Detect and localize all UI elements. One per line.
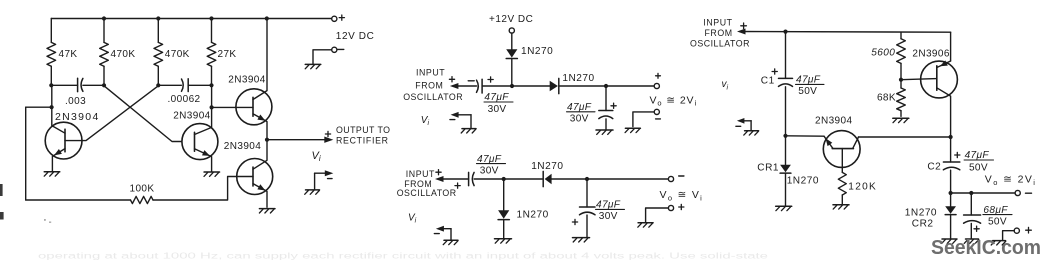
- svg-text:INPUT: INPUT: [703, 17, 732, 27]
- svg-text:68K: 68K: [877, 93, 896, 104]
- wire C3 to node (doubler A): [482, 85, 550, 87]
- label RECTIFIER: [336, 135, 389, 145]
- svg-text:47K: 47K: [59, 49, 78, 60]
- wire input (doubler B): [435, 176, 469, 182]
- node output bus / 68uF tap: [969, 191, 973, 195]
- label C2 50V: [969, 163, 988, 174]
- node output cap tap (doubler A): [604, 84, 608, 88]
- probe Vi A arrow right: [315, 170, 334, 189]
- label INPUT (doubler B): [406, 169, 435, 179]
- svg-text:470K: 470K: [165, 49, 190, 60]
- wire bottom rail right: [153, 177, 237, 201]
- terminal output plus (doubler A): [654, 83, 659, 88]
- label input plus lower (doubler B): [455, 183, 460, 188]
- ground C4 (doubler A): [596, 130, 613, 134]
- wire bottom rail left: [26, 199, 131, 201]
- wire D4 to output terminal (doubler B): [552, 178, 669, 180]
- svg-text:INPUT: INPUT: [406, 169, 435, 179]
- wire D1 to input node: [511, 59, 513, 86]
- label input plus (doubler A): [449, 77, 454, 82]
- capacitor C7 68uF (right): [964, 215, 981, 223]
- label C5 30V: [480, 165, 499, 176]
- svg-text:2N3904: 2N3904: [224, 141, 261, 152]
- wire C5 to diode D4 (doubler B): [474, 178, 543, 180]
- node R4/C2/Q2 collector: [209, 83, 213, 87]
- svg-text:2N3904: 2N3904: [55, 111, 100, 123]
- wire input top rail (right): [737, 29, 951, 35]
- transistor Q2 2N3904: [182, 85, 218, 171]
- label Vi probe D: [0, 0, 1, 1]
- resistor R7 5600: [897, 32, 906, 79]
- ground plus terminal (right): [991, 241, 1006, 245]
- label C2 plus: [955, 152, 960, 157]
- ground R6 120K: [833, 205, 849, 209]
- svg-text:Vo ≅ 2Vi: Vo ≅ 2Vi: [650, 94, 698, 107]
- label C1 50V: [798, 86, 817, 97]
- wire 68uF top lead: [970, 193, 972, 215]
- svg-text:operating at about 1000 Hz, ca: operating at about 1000 Hz, can supply e…: [38, 252, 769, 261]
- svg-text:INPUT: INPUT: [416, 68, 445, 78]
- label D3 1N270: [517, 210, 549, 221]
- label C7 50V: [988, 217, 1007, 228]
- ground Vi probe C: [443, 240, 458, 244]
- capacitor C1 .003: [78, 78, 83, 91]
- ground plus terminal (doubler B): [638, 223, 653, 227]
- watermark SeekIC.com: [931, 236, 1041, 259]
- probe Vi B arrow left: [450, 112, 471, 128]
- svg-text:5600: 5600: [871, 47, 895, 58]
- label 12V minus: [338, 48, 344, 50]
- label CR1: [757, 162, 779, 173]
- label C5 47uF: [477, 154, 506, 165]
- ground C7 68uF: [964, 239, 979, 243]
- label terminal plus (doubler A): [656, 73, 661, 78]
- svg-text:50V: 50V: [988, 217, 1007, 228]
- svg-text:2N3906: 2N3906: [912, 49, 949, 60]
- label C7 68uF: [983, 205, 1012, 216]
- resistor R5 100K: [131, 196, 154, 203]
- wire Q2 collector to Q3 base: [212, 106, 253, 108]
- svg-text:120K: 120K: [848, 181, 877, 192]
- diode D4 1N270 series: [543, 171, 551, 186]
- ground minus terminal (doubler A): [625, 128, 640, 132]
- wire R6 to ground: [841, 195, 843, 204]
- svg-text:1N270: 1N270: [517, 210, 549, 221]
- resistor R3 470K: [154, 19, 163, 86]
- label Vo=Vi (doubler B): [660, 189, 704, 202]
- wire D2 to output terminal (doubler A): [560, 85, 654, 87]
- node top rail / 27K R4: [209, 16, 213, 20]
- wire C6 to ground: [586, 215, 588, 237]
- resistor R6 120K: [838, 172, 846, 195]
- node diode junction (doubler B): [502, 177, 506, 181]
- wire Q1 collector node to C1: [51, 84, 77, 86]
- label D2 1N270: [562, 73, 594, 84]
- capacitor C4 47uF output (doubler A): [599, 111, 613, 119]
- label FROM (doubler B): [404, 179, 432, 189]
- svg-text:2N3904: 2N3904: [228, 74, 265, 85]
- label Vo=2Vi (right): [985, 174, 1037, 187]
- label C2 (right): [927, 162, 941, 173]
- wire C4 to ground: [605, 119, 607, 129]
- caption faint bottom: [38, 252, 769, 261]
- capacitor C1 47uF (right): [779, 78, 793, 86]
- svg-text:CR2: CR2: [912, 219, 934, 230]
- svg-text:470K: 470K: [111, 49, 136, 60]
- svg-text:27K: 27K: [218, 49, 237, 60]
- node top rail / 470K R2: [102, 16, 106, 20]
- svg-text:1N270: 1N270: [521, 46, 553, 57]
- wire C1 to Q2-base node: [83, 84, 104, 86]
- wire minus terminal to ground (doubler A): [633, 112, 654, 127]
- transistor Q6 2N3906 (PNP): [921, 60, 958, 137]
- ground CR2: [942, 239, 957, 243]
- label Vi probe B: [421, 115, 430, 127]
- capacitor C3 47uF input (doubler A): [477, 79, 483, 93]
- label R1 47K: [59, 49, 78, 60]
- node Q1 collector / feedback: [50, 105, 54, 109]
- terminal output minus (right): [1015, 190, 1020, 195]
- label Q1 2N3904: [55, 111, 100, 123]
- label terminal plus (doubler B): [679, 204, 684, 209]
- label C1 plus (right): [772, 69, 777, 74]
- capacitor C6 47uF output (doubler B): [580, 207, 596, 215]
- label C1 47uF value: [796, 75, 825, 86]
- wire +12V top rail (left oscillator): [51, 18, 332, 20]
- wire Q1 collector to bottom rail: [26, 106, 52, 108]
- svg-text:OSCILLATOR: OSCILLATOR: [397, 188, 457, 198]
- label CR1 1N270: [787, 175, 819, 186]
- wire output to rectifier: [267, 137, 333, 143]
- ground Vi probe B: [461, 129, 476, 133]
- svg-text:100K: 100K: [130, 184, 155, 195]
- label R4 27K: [218, 49, 237, 60]
- resistor R1 47K: [47, 19, 56, 86]
- terminal output minus (doubler A): [654, 109, 659, 114]
- probe Vi C arrow left: [434, 226, 451, 240]
- ground D3 (doubler B): [495, 239, 512, 243]
- wire node to diode D3 (doubler B): [503, 179, 505, 210]
- transistor Q1 2N3904: [45, 85, 82, 171]
- svg-text:+12V DC: +12V DC: [489, 14, 533, 25]
- diode D2 1N270 series: [550, 78, 559, 93]
- label C4 plus: [611, 103, 616, 108]
- label 12V plus: [339, 15, 344, 20]
- label Q2 2N3904: [173, 110, 210, 121]
- label input plus (right): [741, 23, 747, 29]
- label terminal minus (doubler A): [656, 118, 661, 120]
- node top rail / Q3 collector: [265, 16, 269, 20]
- label R5 100K: [130, 184, 155, 195]
- label FROM (right): [705, 28, 733, 38]
- svg-text:50V: 50V: [798, 86, 817, 97]
- ground 12V negative: [305, 64, 321, 68]
- label FROM (doubler A): [415, 80, 443, 90]
- wire C2 to Q2 collector node: [188, 84, 211, 86]
- node output bus left (right): [949, 191, 953, 195]
- label Q5 2N3904: [815, 116, 852, 127]
- label R6 120K: [848, 181, 877, 192]
- label INPUT (right): [703, 17, 732, 27]
- wire rail corner down to Q6 emitter: [950, 32, 952, 61]
- artifact left-edge smudge: [0, 184, 51, 223]
- wire 12V negative to ground: [313, 50, 332, 64]
- resistor R8 68K: [897, 80, 906, 117]
- svg-text:2N3904: 2N3904: [173, 110, 210, 121]
- label R8 68K: [877, 93, 896, 104]
- svg-text:FROM: FROM: [415, 80, 443, 90]
- wire plus terminal to ground (doubler B): [646, 208, 669, 222]
- svg-text:30V: 30V: [488, 104, 507, 115]
- svg-text:OSCILLATOR: OSCILLATOR: [690, 38, 750, 48]
- wire Q5 to collector junction: [859, 136, 951, 138]
- label Q3 2N3904: [228, 74, 265, 85]
- node Q6 collector / C2: [949, 135, 953, 139]
- label C3 47uF: [484, 92, 513, 103]
- svg-text:C2: C2: [927, 162, 941, 173]
- capacitor C2 47uF (right): [943, 162, 959, 170]
- label CR2: [912, 219, 934, 230]
- wire 68uF to ground: [970, 223, 972, 238]
- svg-text:.003: .003: [65, 96, 86, 107]
- diode D3 1N270 shunt: [498, 210, 509, 219]
- label C2 .00062: [168, 94, 201, 105]
- diode CR1 1N270: [780, 165, 791, 173]
- label Q4 2N3904: [224, 141, 261, 152]
- label input minus (doubler A): [468, 80, 474, 82]
- svg-text:1N270: 1N270: [787, 175, 819, 186]
- wire plus terminal to ground (right): [1003, 231, 1015, 240]
- svg-text:FROM: FROM: [705, 28, 733, 38]
- wire node to C6 (doubler B): [586, 179, 588, 207]
- ground Vi probe A: [305, 190, 320, 194]
- wire input (doubler A): [450, 83, 477, 89]
- svg-text:C1: C1: [761, 76, 775, 87]
- label C6 30V: [599, 211, 618, 222]
- wire left feedback vertical: [25, 107, 27, 200]
- svg-text:50V: 50V: [969, 163, 988, 174]
- wire 12V terminal to diode D1: [511, 33, 513, 49]
- node R3/C2/Q1-base-line: [156, 83, 160, 87]
- svg-text:1N270: 1N270: [531, 161, 563, 172]
- terminal +12V positive: [332, 16, 337, 21]
- label OUTPUT TO: [336, 125, 390, 135]
- label INPUT (doubler A): [416, 68, 445, 78]
- label vi (right): [722, 79, 729, 91]
- svg-text:1N270: 1N270: [562, 73, 594, 84]
- transistor Q5 2N3904 (rotated): [823, 131, 860, 173]
- svg-text:30V: 30V: [570, 113, 589, 124]
- label C1 (right): [761, 76, 775, 87]
- label OSCILLATOR (doubler A): [403, 92, 463, 102]
- svg-text:OSCILLATOR: OSCILLATOR: [403, 92, 463, 102]
- label C3 plus: [488, 77, 493, 82]
- svg-text:2N3904: 2N3904: [815, 116, 852, 127]
- svg-text:RECTIFIER: RECTIFIER: [336, 135, 389, 145]
- wire output bus (right): [951, 192, 1016, 194]
- resistor R4 27K: [207, 19, 216, 86]
- terminal output minus (doubler B): [668, 176, 673, 181]
- node output Q3/Q4: [265, 138, 269, 142]
- wire CR2 top lead: [950, 193, 952, 206]
- label OSCILLATOR (right): [690, 38, 750, 48]
- capacitor C2 .00062: [182, 79, 189, 92]
- label D4 1N270: [531, 161, 563, 172]
- wire C2 to output node: [950, 170, 952, 193]
- transistor Q4 2N3904: [237, 140, 273, 208]
- label C6 plus: [572, 219, 577, 224]
- node R2/C1/Q2-base-line: [102, 83, 106, 87]
- ground CR1: [776, 206, 792, 210]
- wire node to C4: [605, 86, 607, 111]
- label OSCILLATOR (doubler B): [397, 188, 457, 198]
- label input plus upper (doubler B): [436, 170, 441, 175]
- label C1 .003: [65, 96, 86, 107]
- wire D3 to ground: [503, 220, 505, 238]
- ground Vi probe D: [744, 131, 759, 135]
- node C1/CR1/Q5 emitter: [783, 134, 787, 138]
- diode CR2 1N270: [945, 206, 956, 214]
- label C7 plus: [974, 226, 979, 231]
- wire CR2 to ground: [950, 215, 952, 239]
- svg-text:OUTPUT TO: OUTPUT TO: [336, 125, 390, 135]
- label +12V DC (doubler A): [489, 14, 533, 25]
- svg-text:CR1: CR1: [757, 162, 779, 173]
- label terminal minus (right): [1026, 192, 1032, 194]
- label C4 47uF: [567, 102, 596, 113]
- ground R8 68K: [893, 118, 909, 122]
- label 12V DC: [336, 31, 375, 42]
- terminal output plus (right): [1014, 228, 1019, 233]
- label R7 5600: [871, 47, 895, 58]
- label Vi probe C: [408, 212, 417, 224]
- label Vo=2Vi (doubler A): [650, 94, 698, 107]
- wire cross-couple node R2 to Q2 base: [104, 86, 182, 142]
- svg-text:.00062: .00062: [168, 94, 201, 105]
- label Q6 2N3906: [912, 49, 949, 60]
- ground C6 (doubler B): [573, 238, 590, 242]
- label C3 30V: [488, 104, 507, 115]
- node output cap tap (doubler B): [585, 177, 589, 181]
- wire input node to C1 (right): [785, 32, 787, 79]
- node R1/C1/Q1 collector: [49, 83, 53, 87]
- node Q2 collector / Q3 base tap: [210, 105, 214, 109]
- wire CR1 top lead: [785, 136, 787, 165]
- wire Q6 base: [901, 79, 937, 80]
- wire C1 to base node (right): [785, 87, 787, 136]
- wire base node to Q5 emitter: [786, 135, 825, 137]
- label Vi probe A: [312, 150, 321, 163]
- wire Q1-base node to C2: [158, 84, 181, 86]
- svg-text:Vo ≅ 2Vi: Vo ≅ 2Vi: [985, 174, 1037, 187]
- svg-text:30V: 30V: [599, 211, 618, 222]
- terminal +12V (doubler A): [509, 28, 514, 33]
- node input / C1 chain: [783, 30, 787, 34]
- svg-text:1N270: 1N270: [905, 208, 937, 219]
- label CR2 1N270: [905, 208, 937, 219]
- svg-text:Vo ≅ Vi: Vo ≅ Vi: [660, 189, 704, 202]
- svg-text:SeekIC.com: SeekIC.com: [931, 236, 1041, 259]
- label C6 47uF: [596, 200, 625, 211]
- label C4 30V: [570, 113, 589, 124]
- label terminal plus (right): [1026, 227, 1032, 233]
- label terminal minus (doubler B): [679, 175, 684, 177]
- node top rail / 470K R3: [156, 16, 160, 20]
- svg-text:12V DC: 12V DC: [336, 31, 375, 42]
- wire C2 top lead: [950, 137, 952, 162]
- diode D1 1N270 shunt: [506, 49, 517, 58]
- label output plus: [325, 131, 330, 136]
- label C2 47uF value: [964, 150, 993, 161]
- label R2 470K: [111, 49, 136, 60]
- node R7/R8/Q6 base: [899, 78, 903, 82]
- terminal 12V negative: [332, 47, 337, 52]
- ground Q4 emitter: [259, 209, 275, 213]
- wire cross-couple node R3 to Q1 base: [82, 86, 158, 141]
- node diode junction (doubler A): [510, 84, 514, 88]
- probe Vi D arrow left: [736, 118, 751, 130]
- transistor Q3 2N3904: [236, 19, 272, 140]
- ground Q2 emitter: [204, 172, 220, 176]
- label D1 1N270: [521, 46, 553, 57]
- wire CR1 to ground: [785, 173, 787, 205]
- capacitor C5 47uF input (doubler B): [469, 172, 475, 185]
- ground Q1 emitter: [44, 172, 60, 176]
- svg-text:30V: 30V: [480, 165, 499, 176]
- label R3 470K: [165, 49, 190, 60]
- resistor R2 470K: [100, 19, 109, 86]
- terminal output plus (doubler B): [668, 205, 673, 210]
